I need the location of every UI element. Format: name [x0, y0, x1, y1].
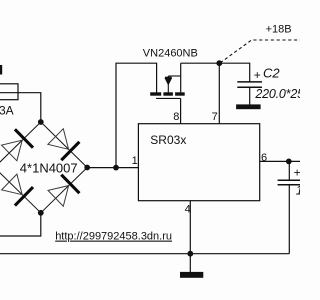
svg-text:3A: 3A [0, 104, 14, 118]
diode VD1 (1N4007, top-left arm) [2, 129, 34, 161]
capacitor C3 (electrolytic, clipped at right edge) [278, 161, 300, 253]
svg-text:+18B: +18B [266, 23, 292, 35]
node: output / C3 junction [286, 159, 292, 165]
terminal stub (cut-off bold label at left edge) [0, 65, 2, 75]
wire: bridge edge bottom-to-right [41, 168, 87, 213]
wire: bridge edge left-to-bottom [0, 168, 41, 213]
wire: dashed +18B feed [220, 40, 300, 63]
wire: drain riser to +18 rail [180, 63, 182, 92]
svg-text:+: + [254, 68, 261, 82]
gate line [156, 97, 181, 99]
wire: ground rail along bottom [0, 253, 289, 255]
C2 top plate [237, 81, 262, 83]
fuse FU1 body [0, 84, 18, 100]
wire: +18V rail (drain to C2 top) [181, 62, 250, 64]
body bar (middle electrode) [163, 92, 173, 95]
diode VD4 (1N4007, bottom-right arm) [48, 175, 79, 207]
node: rail / pin 7 junction [216, 60, 222, 66]
wire: rail corner down to C2 [248, 63, 251, 81]
svg-text:100: 100 [296, 182, 300, 197]
wire: gate to IC pin 8 [180, 98, 182, 123]
svg-text:1: 1 [132, 155, 138, 167]
wire: junction to ground symbol [189, 254, 191, 272]
wire: bridge edge left-to-top [0, 122, 41, 168]
node: bridge right junction [84, 165, 90, 171]
node: junction of pin-1 wire and MOSFET source loop [113, 165, 119, 171]
svg-text:C2: C2 [263, 66, 280, 81]
ground (main) [180, 272, 203, 278]
node: ground rail / pin 4 junction [187, 251, 193, 257]
wire: AC input through fuse FU1 to bridge top vertex [0, 93, 41, 122]
wire: bridge edge top-to-right [41, 122, 87, 168]
svg-text:7: 7 [212, 111, 218, 123]
op-amp/regulator IC U1 SR03x body [138, 124, 259, 201]
capacitor C2 (electrolytic 220.0*25B) [237, 63, 262, 104]
internal body diode (cathode up) [167, 76, 169, 93]
svg-text:SR03x: SR03x [150, 133, 186, 147]
ground (below C2) [236, 104, 261, 109]
drain bar (right electrode) [175, 92, 185, 95]
C3 top plate [278, 179, 300, 181]
svg-text:220.0*25B: 220.0*25B [254, 87, 300, 101]
svg-text:8: 8 [173, 111, 179, 123]
wire: MOSFET source loop (up, over, down to source bar) [116, 63, 157, 167]
node: bridge top junction [38, 119, 44, 125]
source bar (left electrode) [150, 92, 161, 95]
C3 bottom plate [278, 184, 300, 186]
svg-text:+: + [294, 166, 300, 180]
node: bridge bottom junction [38, 210, 44, 216]
diode VD3 (1N4007, bottom-left arm) [2, 174, 33, 206]
wire: IC pin 4 down to ground rail [189, 201, 191, 254]
svg-text:4*1N4007: 4*1N4007 [20, 161, 78, 176]
wire: C2 to ground bar [249, 87, 251, 104]
wire: C3 down to ground rail [288, 185, 290, 254]
svg-text:VN2460NB: VN2460NB [143, 48, 198, 60]
C2 bottom plate [237, 86, 262, 88]
transistor VT1 VN2460NB (MOSFET) [150, 63, 185, 98]
wire: rail junction down to IC pin 7 [218, 63, 220, 123]
wire: bridge bottom vertex to AC return (exits left edge) [0, 213, 41, 236]
svg-text:http://299792458.3dn.ru: http://299792458.3dn.ru [55, 231, 172, 243]
diode VD2 (1N4007, top-right arm) [48, 129, 80, 161]
svg-text:6: 6 [261, 152, 267, 164]
wire: bridge right vertex to IC pin 1 [87, 167, 138, 169]
wire: junction down to C3 [288, 161, 290, 180]
wire: diode branch jog to drain riser [168, 75, 180, 77]
wire: IC pin 6 output to right edge [260, 160, 300, 162]
